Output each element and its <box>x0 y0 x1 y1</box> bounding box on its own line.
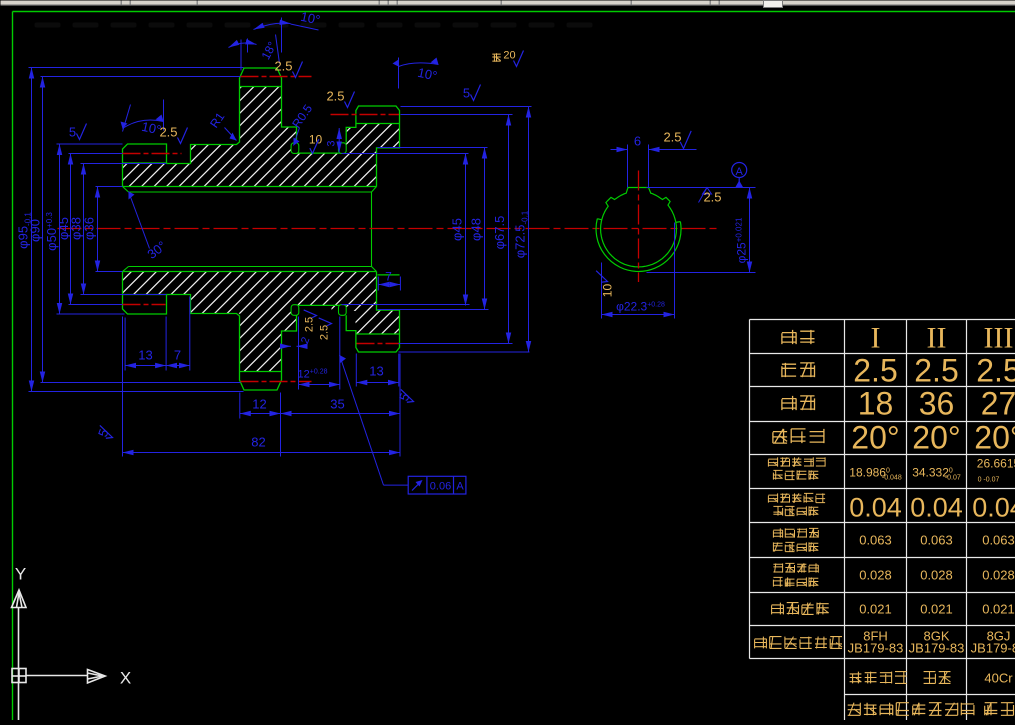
tolerance frame <box>408 476 466 494</box>
dimension line dia50 <box>59 144 61 314</box>
svg-text:20°: 20° <box>974 420 1015 456</box>
svg-text:5: 5 <box>463 86 470 101</box>
gear I root line top <box>123 162 167 164</box>
angle dim 10 deg gear II crown <box>281 18 283 53</box>
svg-text:φ90: φ90 <box>28 219 43 242</box>
bore outline <box>123 187 377 272</box>
table row radial runout <box>773 528 818 537</box>
ghost menu marks <box>35 23 61 28</box>
svg-text:0.063: 0.063 <box>859 533 892 548</box>
tolerance leader <box>340 355 384 485</box>
gear II root line bottom <box>240 371 282 373</box>
angle dim 10 deg gear III crown <box>399 63 439 67</box>
table row common normal deviation <box>768 457 825 466</box>
groove relief pockets <box>291 143 299 154</box>
extension lines left bottom <box>57 313 125 315</box>
svg-text:0.04: 0.04 <box>972 493 1015 523</box>
extension lines bottom widths <box>122 317 124 457</box>
dimension 3 groove step <box>338 128 340 153</box>
svg-text:27: 27 <box>981 386 1015 422</box>
dim dia22.3 <box>601 263 603 319</box>
svg-text:0.028: 0.028 <box>920 568 953 583</box>
svg-text:0.04: 0.04 <box>849 493 902 523</box>
dimension line dia67.5 <box>508 115 510 344</box>
gear I pitch line top <box>123 153 182 155</box>
svg-text:7: 7 <box>385 270 392 284</box>
svg-text:2.5: 2.5 <box>663 130 681 145</box>
dimension 2 groove step <box>283 345 292 347</box>
gear II pitch line bottom <box>241 381 312 383</box>
bore chamfer corners <box>123 187 377 272</box>
gear III pitch line bottom <box>357 343 400 345</box>
svg-text:2.5: 2.5 <box>274 59 292 74</box>
gear section outline lower <box>123 272 400 391</box>
gear I pitch line bottom <box>123 304 166 306</box>
gear section outline upper <box>123 68 400 187</box>
hatched section upper body <box>123 87 400 187</box>
svg-text:13: 13 <box>138 348 152 363</box>
spline step joints <box>597 219 680 223</box>
svg-text:7: 7 <box>174 348 181 363</box>
table row tooth count <box>782 396 815 410</box>
hatched section lower body <box>123 272 400 372</box>
svg-text:0.04: 0.04 <box>910 493 963 523</box>
svg-text:A: A <box>456 481 464 493</box>
svg-text:φ48: φ48 <box>469 218 484 241</box>
svg-text:36: 36 <box>919 386 955 422</box>
leader 30 deg chamfer <box>129 192 150 249</box>
svg-text:0.028: 0.028 <box>982 568 1015 583</box>
svg-text:2.5: 2.5 <box>159 125 177 140</box>
svg-text:0.063: 0.063 <box>982 533 1015 548</box>
circle centerline vertical <box>638 171 640 283</box>
svg-text:0 -0.07: 0 -0.07 <box>978 477 1000 484</box>
svg-text:φ67.5: φ67.5 <box>492 216 507 250</box>
svg-text:0.06: 0.06 <box>430 481 451 493</box>
dimension line dia48 <box>484 148 486 310</box>
svg-text:20°: 20° <box>851 420 899 456</box>
extension lines right <box>401 106 532 108</box>
table row tooth-to-tooth composite <box>773 563 818 572</box>
table row common normal variation <box>768 493 825 502</box>
dimension 7 right recess <box>377 277 379 291</box>
angle dim 18 deg <box>240 40 242 71</box>
svg-text:JB179-83: JB179-83 <box>848 641 904 656</box>
svg-text:2.5: 2.5 <box>703 190 721 205</box>
drawing frame border <box>13 11 1015 13</box>
svg-text:φ36: φ36 <box>82 217 97 240</box>
table title row gear name production type <box>848 703 909 716</box>
svg-text:2.5: 2.5 <box>853 353 897 389</box>
svg-text:JB179-83: JB179-83 <box>971 641 1015 656</box>
main centerline <box>58 228 719 230</box>
leader R1 <box>225 128 237 141</box>
svg-text:2.5: 2.5 <box>304 317 316 332</box>
leader R0.5 <box>294 128 300 146</box>
svg-text:0.021: 0.021 <box>859 602 892 617</box>
svg-text:5: 5 <box>69 125 76 140</box>
svg-text:0.028: 0.028 <box>859 568 892 583</box>
datum A flag <box>732 163 747 178</box>
svg-text:2.5: 2.5 <box>319 325 331 340</box>
toolbar button <box>764 1 783 8</box>
extension lines left top <box>29 67 244 69</box>
dim dia25 vertical <box>647 272 756 274</box>
dimension 12 gearII <box>240 413 281 415</box>
svg-text:0.063: 0.063 <box>920 533 953 548</box>
svg-text:40Cr: 40Cr <box>984 671 1013 686</box>
svg-text:φ45: φ45 <box>450 218 465 241</box>
svg-text:12: 12 <box>252 397 266 412</box>
dimension 13 right <box>356 382 399 384</box>
extension lines left mid <box>57 143 123 145</box>
UCS icon <box>12 590 106 721</box>
dimension 12 groove <box>298 317 300 390</box>
roughness 2.5 right of circle <box>703 188 712 195</box>
gear I root line bottom <box>123 294 167 296</box>
gear III pitch line top <box>331 114 400 116</box>
svg-text:I: I <box>871 322 881 355</box>
dimension line dia45 right <box>465 154 467 306</box>
shaft hole major arc <box>596 219 681 272</box>
svg-text:35: 35 <box>330 397 344 412</box>
svg-text:JB179-83: JB179-83 <box>909 641 965 656</box>
svg-text:6: 6 <box>634 134 641 149</box>
svg-text:A: A <box>736 166 744 178</box>
toolbar strip top <box>1 1 1015 6</box>
svg-text:26.6615: 26.6615 <box>977 457 1015 471</box>
dimension line dia95 <box>31 68 33 392</box>
right recess inner step <box>378 274 400 276</box>
note rest roughness 20 <box>492 53 500 61</box>
shaft hole spline minor profile with keyway slot and bumps <box>601 188 677 267</box>
table grid <box>750 320 1015 721</box>
gear II pitch line top <box>241 76 312 78</box>
table header row gear number <box>782 330 815 344</box>
table row precision grade <box>755 637 842 649</box>
table row tooth direction error <box>772 603 829 615</box>
svg-text:20: 20 <box>503 50 515 62</box>
angle dim 10 deg gear I crown <box>123 120 164 128</box>
gear III root line top <box>356 123 400 125</box>
svg-text:3: 3 <box>326 140 338 146</box>
dimension line dia90 <box>42 77 44 383</box>
table row pressure angle <box>773 429 824 443</box>
svg-text:Y: Y <box>15 565 26 584</box>
svg-text:2.5: 2.5 <box>976 353 1015 389</box>
svg-text:III: III <box>984 322 1014 355</box>
dimension line dia45 left <box>70 154 72 305</box>
gear II root line top <box>240 86 282 88</box>
dimension 82 <box>123 452 401 454</box>
svg-text:2.5: 2.5 <box>914 353 958 389</box>
svg-text:10: 10 <box>601 284 615 298</box>
dimension line dia38 <box>83 164 85 295</box>
svg-text:II: II <box>927 322 947 355</box>
dimension 7 left <box>166 365 190 367</box>
dimension 13 left <box>125 365 166 367</box>
bore spline root lines <box>129 192 372 267</box>
svg-text:13: 13 <box>369 364 383 379</box>
svg-text:20°: 20° <box>912 420 960 456</box>
dim 6 keyway <box>627 145 629 188</box>
svg-text:18: 18 <box>858 386 894 422</box>
dimension 35 <box>281 413 401 415</box>
svg-text:2.5: 2.5 <box>326 89 344 104</box>
svg-text:0.021: 0.021 <box>982 602 1015 617</box>
table row module <box>782 363 815 377</box>
svg-text:0.021: 0.021 <box>920 602 953 617</box>
gear III root line bottom <box>356 333 400 335</box>
svg-text:82: 82 <box>251 435 265 450</box>
dimension line dia72.5 <box>528 107 530 353</box>
dimension line dia36 <box>97 187 99 272</box>
table title row part name material <box>850 672 907 684</box>
svg-text:10: 10 <box>309 133 323 147</box>
svg-text:X: X <box>120 669 131 688</box>
datum extension line <box>647 187 756 189</box>
